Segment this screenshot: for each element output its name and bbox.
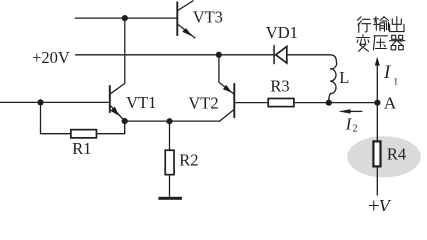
label R1	[72, 139, 91, 158]
svg-text:R3: R3	[270, 77, 289, 96]
输	[374, 17, 389, 32]
svg-text:2: 2	[353, 123, 358, 134]
wire R4 to +V	[376, 168, 378, 196]
transistor VT2	[219, 82, 234, 121]
current arrow I1	[375, 57, 380, 103]
svg-text:A: A	[384, 93, 397, 112]
wire diode to inductor corner	[288, 55, 337, 62]
label +V	[368, 194, 392, 218]
wire lower rail	[125, 120, 220, 122]
wire vertical from top junction down to VT1 collector	[124, 18, 126, 83]
label R3	[270, 77, 289, 96]
junction dot VT1 emitter	[122, 118, 128, 124]
junction dot base wire	[37, 99, 43, 105]
label +20V	[32, 48, 70, 67]
resistor R2	[165, 150, 174, 174]
node A dot	[374, 100, 380, 106]
svg-text:R4: R4	[387, 145, 406, 164]
transistor VT1	[110, 83, 125, 121]
label VT2	[188, 93, 218, 112]
junction dot on +20V rail	[216, 52, 222, 58]
变	[357, 35, 370, 52]
svg-text:VT1: VT1	[126, 93, 156, 112]
svg-text:+20V: +20V	[32, 48, 70, 67]
resistor R3	[268, 99, 294, 107]
label 行输出变压器 (line output transformer)	[357, 17, 405, 52]
svg-text:L: L	[339, 68, 349, 87]
svg-text:V: V	[379, 196, 392, 211]
压	[373, 36, 387, 50]
svg-text:R2: R2	[179, 151, 198, 170]
highlight ellipse around R4	[347, 136, 421, 177]
junction dot L bottom	[326, 100, 332, 106]
svg-text:VT2: VT2	[188, 93, 218, 112]
diode VD1	[274, 45, 287, 64]
svg-text:R1: R1	[72, 139, 91, 158]
ground	[158, 197, 182, 200]
junction dot R2 top	[166, 118, 172, 124]
wire +20V rail	[75, 54, 274, 56]
label A	[384, 93, 397, 112]
resistor R4	[373, 141, 380, 166]
resistor R1	[71, 130, 97, 138]
wire VT1 base from left edge	[0, 101, 109, 103]
label R4	[387, 145, 406, 164]
wire R2 bottom leg	[169, 175, 171, 197]
wire VT2 emitter to +20V junction	[218, 55, 220, 83]
wire R3 to node A	[295, 102, 378, 104]
行	[358, 17, 371, 33]
label R2	[179, 151, 198, 170]
wire R1 left leg	[41, 102, 71, 133]
wire R2 top leg	[169, 121, 171, 150]
wire R1 right leg	[97, 121, 124, 134]
label I2	[345, 114, 358, 134]
器	[390, 35, 405, 50]
wire top rail to VT3 base	[75, 17, 177, 19]
inductor L	[329, 62, 337, 103]
current arrow I2	[338, 109, 362, 113]
wire node A down to R4	[376, 103, 378, 141]
svg-text:VT3: VT3	[193, 8, 223, 27]
label I1	[383, 63, 398, 87]
wire VT2 base to R3	[235, 102, 268, 104]
svg-text:1: 1	[393, 78, 398, 88]
junction dot top rail	[122, 15, 128, 21]
label VT1	[126, 93, 156, 112]
出	[390, 17, 404, 32]
label VD1	[266, 23, 298, 42]
svg-text:VD1: VD1	[266, 23, 298, 42]
label VT3	[193, 8, 223, 27]
label L	[339, 68, 349, 87]
transistor VT3	[177, 1, 195, 39]
svg-text:I: I	[383, 63, 391, 83]
